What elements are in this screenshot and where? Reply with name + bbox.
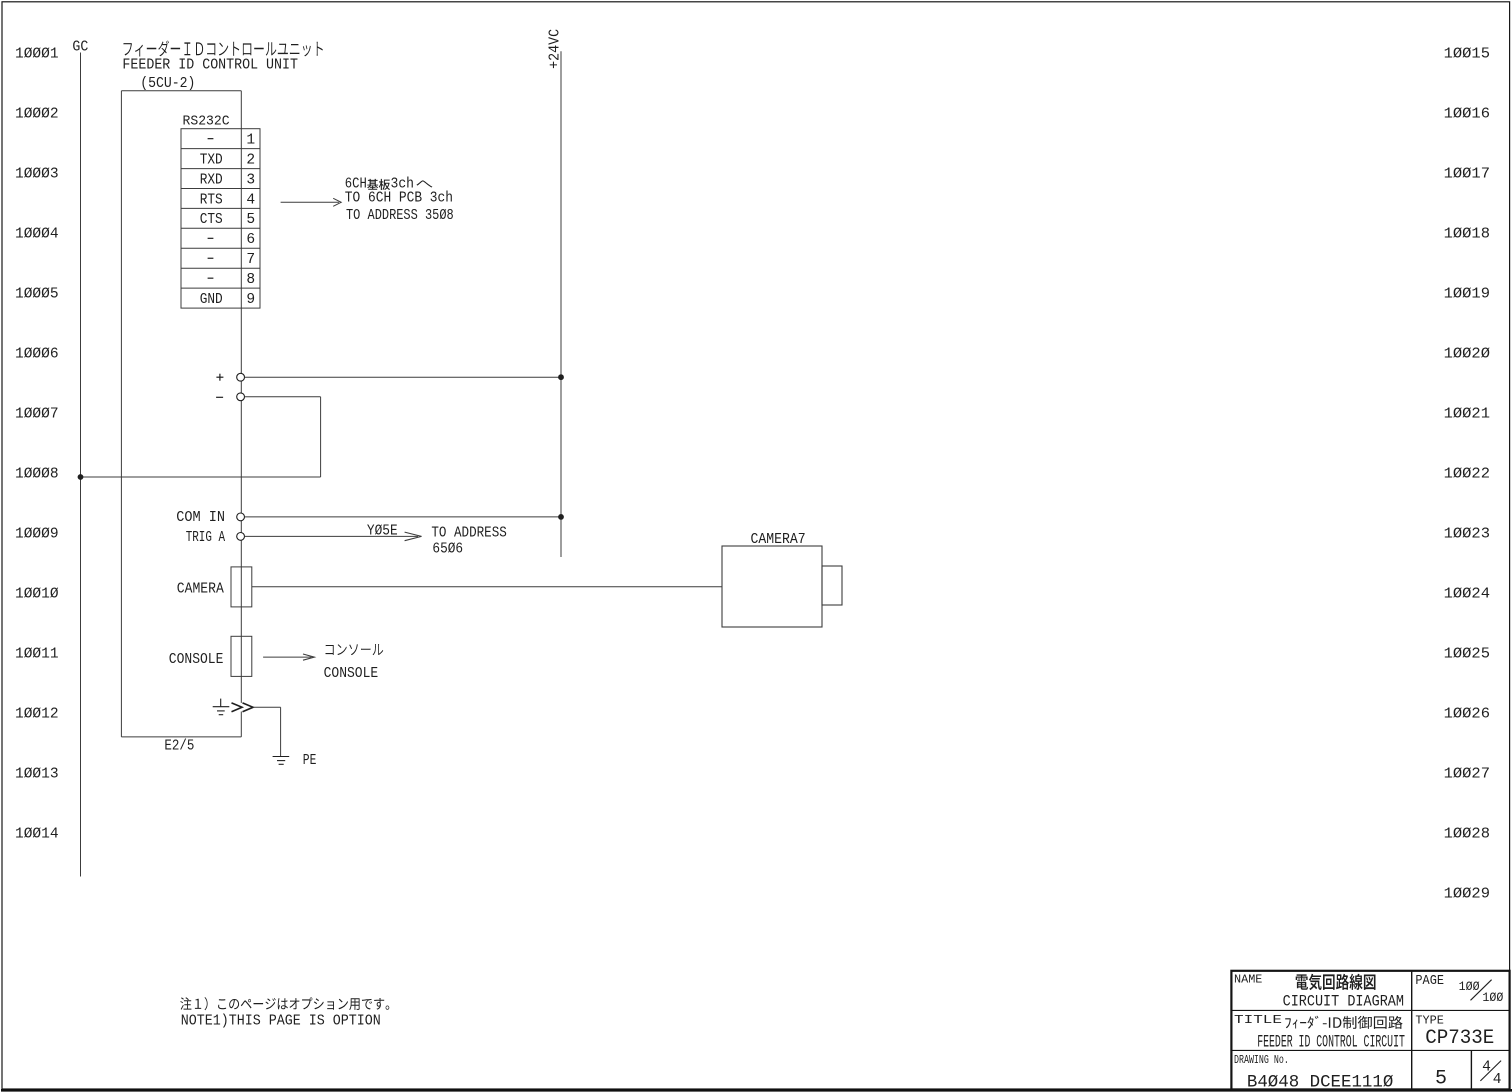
svg-text:1ØØ24: 1ØØ24 <box>1444 584 1490 602</box>
svg-text:1: 1 <box>246 132 255 148</box>
connector J1 RS232C table <box>181 129 260 308</box>
svg-text:2: 2 <box>246 152 255 168</box>
svg-text:TO ADDRESS: TO ADDRESS <box>431 526 507 542</box>
unit U1 box outline FEEDER ID CONTROL UNIT (5CU-2) <box>121 90 241 92</box>
wire COM IN to +24VC bus <box>245 516 562 518</box>
svg-text:RTS: RTS <box>200 192 223 208</box>
wire arrow from RS232C to 6CH PCB <box>281 201 339 203</box>
svg-text:1ØØ2Ø: 1ØØ2Ø <box>1444 344 1490 362</box>
svg-text:TO 6CH PCB 3ch: TO 6CH PCB 3ch <box>345 191 453 207</box>
svg-text:FEEDER ID CONTROL CIRCUIT: FEEDER ID CONTROL CIRCUIT <box>1257 1034 1405 1053</box>
terminal COM IN circle <box>237 513 245 521</box>
title block outline <box>1231 971 1509 1090</box>
wire +24VC vertical bus <box>560 51 562 557</box>
svg-text:1ØØØ4: 1ØØØ4 <box>15 224 59 242</box>
svg-text:1ØØ14: 1ØØ14 <box>15 824 59 842</box>
svg-text:1ØØ29: 1ØØ29 <box>1444 884 1490 902</box>
connector chassis pass-through chevrons <box>232 703 243 712</box>
connector J1 pin name NC row 8 <box>208 277 214 279</box>
wire - terminal to GC bus (right, down, left) <box>245 396 321 398</box>
unit U1 title Japanese: feeder ID control unit <box>124 41 323 57</box>
svg-text:PE: PE <box>303 753 317 769</box>
svg-text:1ØØØ7: 1ØØØ7 <box>15 404 59 422</box>
junction dot on +24VC bus at COM IN wire <box>558 514 564 520</box>
svg-text:1ØØ27: 1ØØ27 <box>1444 764 1490 782</box>
svg-text:CTS: CTS <box>200 212 223 228</box>
svg-text:1ØØ23: 1ØØ23 <box>1444 524 1490 542</box>
connector J1 pin name NC row 7 <box>208 257 214 259</box>
svg-text:3: 3 <box>246 172 255 188</box>
svg-text:1ØØ11: 1ØØ11 <box>15 644 59 662</box>
svg-text:1ØØØ6: 1ØØØ6 <box>15 344 59 362</box>
title block column divider <box>1411 971 1413 1090</box>
svg-text:1ØØ19: 1ØØ19 <box>1444 284 1490 302</box>
svg-text:PAGE: PAGE <box>1415 974 1444 989</box>
svg-text:7: 7 <box>246 252 255 268</box>
ground PE earth symbol <box>273 756 290 758</box>
svg-text:CONSOLE: CONSOLE <box>324 666 379 682</box>
svg-text:TYPE: TYPE <box>1415 1014 1444 1028</box>
svg-text:TRIG A: TRIG A <box>186 530 225 546</box>
title block page column divider <box>1470 1050 1472 1089</box>
svg-text:(5CU-2): (5CU-2) <box>140 76 195 92</box>
note Japanese console <box>326 644 384 655</box>
terminal + (24V supply) symbol <box>216 376 223 378</box>
svg-text:CIRCUIT DIAGRAM: CIRCUIT DIAGRAM <box>1283 993 1404 1011</box>
wire arrow CONSOLE out <box>263 656 311 658</box>
svg-text:1ØØØ9: 1ØØØ9 <box>15 524 59 542</box>
wire TRIG A arrow to address 6506 <box>245 535 419 537</box>
svg-text:1ØØ26: 1ØØ26 <box>1444 704 1490 722</box>
svg-text:CP733E: CP733E <box>1425 1027 1494 1050</box>
svg-text:1ØØ28: 1ØØ28 <box>1444 824 1490 842</box>
svg-text:CAMERA: CAMERA <box>177 582 224 598</box>
svg-text:1ØØØ3: 1ØØØ3 <box>15 164 59 182</box>
connector J1 pin name NC row 1 <box>208 138 214 140</box>
svg-text:B4Ø48 DCEE111Ø: B4Ø48 DCEE111Ø <box>1247 1073 1394 1092</box>
svg-text:1ØØØ8: 1ØØØ8 <box>15 464 59 482</box>
ground chassis symbol inside unit <box>220 699 222 707</box>
svg-text:1ØØ16: 1ØØ16 <box>1444 104 1490 122</box>
svg-text:6: 6 <box>246 232 255 248</box>
svg-text:FEEDER ID CONTROL UNIT: FEEDER ID CONTROL UNIT <box>122 58 298 74</box>
svg-text:5: 5 <box>246 212 255 228</box>
svg-text:NOTE1)THIS PAGE IS OPTION: NOTE1)THIS PAGE IS OPTION <box>181 1014 381 1030</box>
junction dot on +24VC bus at + wire <box>558 374 564 380</box>
terminal + circle <box>237 373 245 381</box>
svg-text:TXD: TXD <box>200 152 223 168</box>
note Japanese: this page is option <box>180 997 389 1010</box>
svg-text:COM IN: COM IN <box>176 510 225 526</box>
svg-text:1ØØ17: 1ØØ17 <box>1444 164 1490 182</box>
title block row divider 2 <box>1231 1049 1509 1051</box>
title block title Japanese: feeder ID control circuit <box>1285 1016 1402 1029</box>
svg-text:TITLE: TITLE <box>1234 1013 1282 1027</box>
svg-text:1ØØ1Ø: 1ØØ1Ø <box>15 584 59 602</box>
svg-text:GND: GND <box>200 292 223 308</box>
connector J1 pin name NC row 6 <box>208 237 214 239</box>
junction dot on GC bus at 10008 <box>78 474 84 480</box>
terminal - (24V return) symbol <box>216 396 223 398</box>
svg-text:1ØØØ2: 1ØØØ2 <box>15 104 59 122</box>
svg-text:1ØØ13: 1ØØ13 <box>15 764 59 782</box>
svg-text:4: 4 <box>1493 1072 1502 1088</box>
svg-text:1ØØ12: 1ØØ12 <box>15 704 59 722</box>
svg-text:DRAWING No.: DRAWING No. <box>1234 1053 1289 1067</box>
svg-text:1ØØ22: 1ØØ22 <box>1444 464 1490 482</box>
svg-text:YØ5E: YØ5E <box>367 524 398 540</box>
svg-text:RS232C: RS232C <box>183 114 230 130</box>
svg-text:4: 4 <box>1482 1059 1491 1075</box>
svg-text:TO ADDRESS 35Ø8: TO ADDRESS 35Ø8 <box>346 208 454 224</box>
svg-text:1ØØ25: 1ØØ25 <box>1444 644 1490 662</box>
svg-text:NAME: NAME <box>1234 973 1262 987</box>
title block row divider 1 <box>1231 1009 1509 1011</box>
svg-text:CONSOLE: CONSOLE <box>169 652 224 668</box>
svg-text:RXD: RXD <box>200 172 223 188</box>
connector CONSOLE box <box>231 636 252 676</box>
svg-text:1ØØ: 1ØØ <box>1482 990 1503 1005</box>
wire GC vertical bus <box>80 53 82 877</box>
svg-text:65Ø6: 65Ø6 <box>432 542 463 558</box>
camera CAMERA7 lens <box>822 566 842 605</box>
wire chassis to PE earth <box>253 706 281 708</box>
wire unit right edge (lower segment below chassis connector) <box>240 712 242 737</box>
terminal TRIG A circle <box>237 533 245 541</box>
svg-text:8: 8 <box>246 272 255 288</box>
svg-text:9: 9 <box>246 292 255 308</box>
svg-text:1ØØ18: 1ØØ18 <box>1444 224 1490 242</box>
wire CAMERA cable to camera <box>252 586 722 588</box>
connector CAMERA box <box>231 567 252 607</box>
svg-text:4: 4 <box>246 192 255 208</box>
svg-text:E2/5: E2/5 <box>164 739 194 755</box>
svg-text:1ØØ21: 1ØØ21 <box>1444 404 1490 422</box>
wire unit right edge (upper segment) <box>240 91 242 703</box>
wire + terminal to +24VC bus <box>245 376 562 378</box>
svg-text:5: 5 <box>1435 1068 1447 1091</box>
svg-text:1ØØ15: 1ØØ15 <box>1444 44 1490 62</box>
camera CAMERA7 body <box>722 546 822 627</box>
svg-text:1ØØØ5: 1ØØØ5 <box>15 284 59 302</box>
svg-text:1ØØ: 1ØØ <box>1459 979 1480 994</box>
svg-text:1ØØØ1: 1ØØØ1 <box>15 44 59 62</box>
terminal - circle <box>237 393 245 401</box>
title block name Japanese: circuit diagram <box>1296 974 1376 990</box>
